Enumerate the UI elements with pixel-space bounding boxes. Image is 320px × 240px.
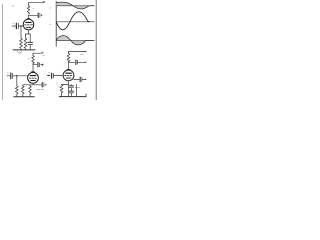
wire output branch stage2: [33, 64, 37, 66]
tick left of RL stage2: [28, 57, 29, 59]
wire between caps stage3: [70, 88, 72, 91]
tick above input stage1: [13, 22, 14, 24]
wire Rk bottom: [25, 48, 27, 51]
wire grid resistor lead stage2: [16, 76, 18, 86]
resistor RL stage3: [67, 54, 70, 62]
V1 cathode: [26, 26, 30, 28]
capacitor C output stage2: [37, 63, 39, 67]
wire Rk bottom stage3: [61, 93, 63, 97]
resistor Rk stage1: [24, 38, 27, 48]
V2 cathode: [31, 80, 35, 82]
capacitor C coupling stage2: [10, 73, 12, 79]
wire R2 lead stage2: [22, 85, 24, 86]
wire V1 plate lead: [28, 15, 30, 19]
V2 plate bar: [30, 75, 36, 77]
capacitor C output stage3: [75, 60, 77, 64]
value label 50k stage2: [37, 88, 44, 90]
node grid junction stage2: [16, 75, 18, 77]
capacitor Ck1 stage3: [69, 85, 73, 87]
ground bus stage3: [59, 96, 86, 98]
waveform 3 shading: [56, 36, 85, 45]
V3 plate bar: [66, 72, 72, 74]
waveform 1 axis: [56, 5, 94, 7]
resistor Rk stage2: [29, 86, 32, 94]
ground bus stage1: [13, 49, 35, 51]
tick left of cathode stage3: [56, 82, 57, 84]
wire cathode output stage3: [74, 78, 80, 80]
node grid junction stage1: [20, 25, 22, 27]
wire grid resistor lead stage1: [20, 26, 22, 38]
terminal B plus stage2: [42, 52, 43, 53]
node output terminal stage1: [41, 15, 42, 16]
wire input stub stage2: [7, 75, 10, 77]
wire grid stage3: [53, 75, 63, 77]
wire Ck top lead stage3: [70, 85, 72, 86]
tick above input stage2: [7, 72, 8, 74]
node B plus terminal stage3: [85, 51, 86, 52]
wire cathode jog stage2: [23, 83, 33, 85]
ground bus stage2: [14, 96, 35, 98]
capacitor cathode output stage3: [79, 77, 81, 81]
label dot a: [12, 6, 13, 7]
wire Ck bottom lead stage3: [70, 93, 72, 97]
triode V1 envelope: [23, 19, 34, 30]
wire plate junction stage3: [68, 62, 70, 70]
right page border: [95, 0, 97, 100]
tick left of waveform axis upper: [50, 7, 51, 9]
V3 grid dashes: [65, 75, 72, 77]
left page border: [2, 4, 4, 100]
wire Rk lead stage2: [29, 85, 31, 86]
wire R2 bottom stage2: [22, 94, 24, 97]
V3 cathode: [66, 77, 70, 79]
wire output branch stage1: [29, 14, 38, 16]
waveform 1 trace: [56, 2, 93, 9]
resistor R2 stage2: [21, 86, 24, 94]
stage3 B plus wire: [69, 51, 85, 53]
V1 grid dashes: [25, 24, 33, 26]
triode V2 envelope: [28, 72, 39, 83]
capacitor Ck stage1: [28, 41, 33, 43]
node cathode output terminal stage3: [85, 79, 86, 80]
wire Rg bottom stage2: [16, 94, 18, 97]
waveform vertical axis: [55, 1, 57, 46]
resistor RL stage2: [32, 55, 35, 63]
wire cathode output stage2: [33, 84, 41, 86]
capacitor C2 output stage1: [37, 13, 39, 17]
wire Ck top lead stage1: [29, 34, 31, 42]
capacitor Ck2 stage3: [69, 90, 73, 92]
resistor Rg stage1: [20, 38, 23, 48]
resistor Rk stage3: [60, 85, 63, 93]
capacitor C coupling stage3: [51, 73, 53, 78]
wire to cathode terminal stage3: [82, 78, 85, 80]
waveform 2 trace: [56, 12, 89, 30]
wire load return stage3: [75, 84, 77, 96]
resistor Rg stage2: [15, 86, 18, 94]
wire cathode lead stage3: [68, 81, 70, 97]
V2 grid dashes: [29, 77, 36, 79]
inductor L1 anode load stage1: [27, 6, 29, 14]
tick left of waveform axis middle: [50, 23, 51, 25]
terminal B plus stage1: [43, 1, 45, 3]
ground loop below bus: [17, 51, 22, 53]
value label stage3: [75, 87, 79, 89]
V1 plate bar: [26, 21, 31, 23]
capacitor C1 coupling stage1: [15, 23, 17, 29]
node output terminal stage3: [85, 62, 86, 63]
value label near L1: [33, 8, 34, 10]
wire Rk bottom stage2: [29, 94, 31, 97]
waveform 3 axis: [56, 40, 94, 42]
wire plate junction stage2: [32, 64, 34, 73]
waveform 1 shading: [56, 2, 88, 9]
wire input stub stage3: [47, 75, 50, 77]
label near stage3 top: [80, 54, 83, 56]
wire Rg bottom: [20, 48, 22, 51]
wire V1 cathode lead: [26, 30, 31, 34]
waveform 2 axis: [56, 21, 94, 23]
wire Rk lead stage1: [25, 34, 27, 38]
triode V3 envelope: [63, 70, 74, 81]
wire cathode jog stage3: [62, 84, 69, 86]
capacitor cathode output stage2: [41, 83, 43, 87]
waveform 3 trace: [56, 36, 93, 45]
wire Rk lead stage3: [61, 84, 63, 86]
tick above input stage3: [48, 72, 49, 74]
label near stage2 top: [43, 55, 45, 57]
wire B plus top stage1: [29, 3, 43, 6]
node input terminal stage3: [48, 75, 49, 76]
wire to output terminal stage3: [78, 61, 85, 63]
terminal stub right of bus stage3: [85, 95, 87, 97]
wire input stub stage1: [12, 25, 16, 27]
wire output branch stage3: [69, 61, 75, 63]
terminal arrow output stage2: [40, 64, 43, 66]
wire Ck bottom lead: [29, 44, 31, 50]
stage2 B plus wire: [33, 53, 41, 55]
node cathode output terminal stage2: [45, 84, 46, 85]
wire grid stage1: [18, 25, 23, 27]
wire grid stage2: [13, 75, 28, 77]
